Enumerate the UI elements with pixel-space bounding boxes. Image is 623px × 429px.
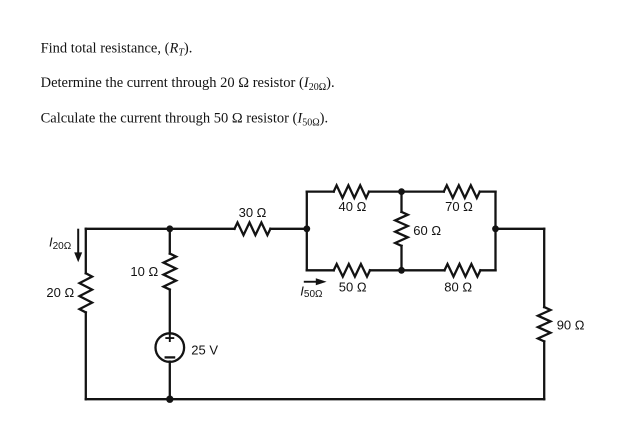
wire 30ohm-to-network (270, 228, 306, 230)
wire 10ohm-to-source (169, 290, 171, 333)
wire network top-left segment (307, 190, 334, 192)
wire bottom horizontal (86, 398, 544, 400)
wire right vertical upper (543, 229, 545, 307)
node E (network right) (492, 225, 499, 232)
wire middle branch upper (169, 229, 171, 254)
current arrow I50 (right) (304, 281, 317, 283)
voltage source plus sign (166, 335, 173, 341)
svg-text:20 Ω: 20 Ω (46, 285, 74, 300)
wire network top-right segment (480, 190, 496, 192)
current arrow I20 (down) (77, 229, 79, 253)
wire left vertical upper (85, 229, 87, 273)
resistor R80 (80 ohm) (445, 264, 481, 277)
node B (network left) (303, 225, 310, 232)
svg-text:Determine the current through: Determine the current through 20 Ω resis… (41, 75, 335, 93)
wire network bottom-left segment (307, 269, 334, 271)
resistor R20 (20 ohm) (80, 273, 93, 312)
svg-text:Find total resistance, (RT).: Find total resistance, (RT). (41, 41, 193, 59)
wire network bottom-middle segment (370, 269, 445, 271)
svg-text:60 Ω: 60 Ω (413, 223, 441, 238)
wire network bottom-right segment (480, 269, 495, 271)
resistor R50 (50 ohm) (334, 264, 370, 277)
svg-text:50 Ω: 50 Ω (339, 279, 367, 294)
svg-text:I20Ω: I20Ω (49, 235, 72, 253)
resistor R40 (40 ohm) (334, 185, 369, 198)
svg-text:10 Ω: 10 Ω (130, 264, 158, 279)
node D (network bottom middle) (398, 267, 405, 274)
svg-text:Calculate the current through: Calculate the current through 50 Ω resis… (41, 110, 329, 128)
svg-text:25 V: 25 V (191, 343, 218, 358)
resistor R60 (60 ohm) (395, 212, 408, 246)
svg-text:40 Ω: 40 Ω (339, 199, 367, 214)
resistor R70 (70 ohm) (444, 185, 480, 198)
wire network middle vertical lower (400, 246, 402, 270)
wire network top-middle segment (369, 190, 444, 192)
wire right vertical lower (543, 341, 545, 399)
wire network middle vertical upper (400, 192, 402, 212)
wire top-left horizontal (86, 228, 235, 230)
svg-text:90 Ω: 90 Ω (557, 318, 585, 333)
node A (top middle junction) (166, 225, 173, 232)
resistor R10 (10 ohm) (164, 254, 177, 290)
wire network left vertical (306, 192, 308, 271)
wire source-to-bottom (169, 362, 171, 400)
resistor R90 (90 ohm) (538, 307, 551, 341)
wire node-to-right branch (496, 228, 545, 230)
svg-text:I50Ω: I50Ω (300, 283, 323, 299)
svg-text:30 Ω: 30 Ω (239, 205, 267, 220)
wire network right vertical (494, 192, 496, 271)
voltage source minus sign (166, 356, 174, 358)
svg-text:70 Ω: 70 Ω (445, 199, 473, 214)
voltage source V1 circle (156, 333, 185, 362)
wire left vertical lower (85, 312, 87, 399)
node F (bottom junction) (166, 396, 173, 403)
node C (network top middle) (398, 188, 405, 195)
resistor R30 (30 ohm) (235, 223, 271, 236)
svg-text:80 Ω: 80 Ω (444, 279, 472, 294)
